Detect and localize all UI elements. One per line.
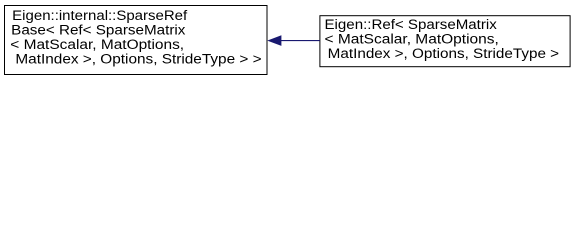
svg-text:< MatScalar, MatOptions,: < MatScalar, MatOptions, bbox=[325, 32, 499, 47]
class node box: Eigen::Ref (base, right) bbox=[320, 16, 570, 67]
class node box: Eigen::internal::SparseRefBase (derived, left) bbox=[5, 6, 268, 75]
svg-text:MatIndex >, Options, StrideTyp: MatIndex >, Options, StrideType > bbox=[328, 46, 560, 61]
svg-text:< MatScalar, MatOptions,: < MatScalar, MatOptions, bbox=[10, 37, 184, 52]
inheritance arrowhead bbox=[269, 36, 281, 45]
svg-text:MatIndex >, Options, StrideTyp: MatIndex >, Options, StrideType > > bbox=[15, 51, 261, 66]
svg-text:Eigen::Ref< SparseMatrix: Eigen::Ref< SparseMatrix bbox=[325, 17, 498, 32]
inheritance arrow shaft bbox=[281, 40, 320, 42]
svg-text:Eigen::internal::SparseRef: Eigen::internal::SparseRef bbox=[12, 8, 187, 23]
svg-text:Base< Ref< SparseMatrix: Base< Ref< SparseMatrix bbox=[11, 22, 186, 37]
